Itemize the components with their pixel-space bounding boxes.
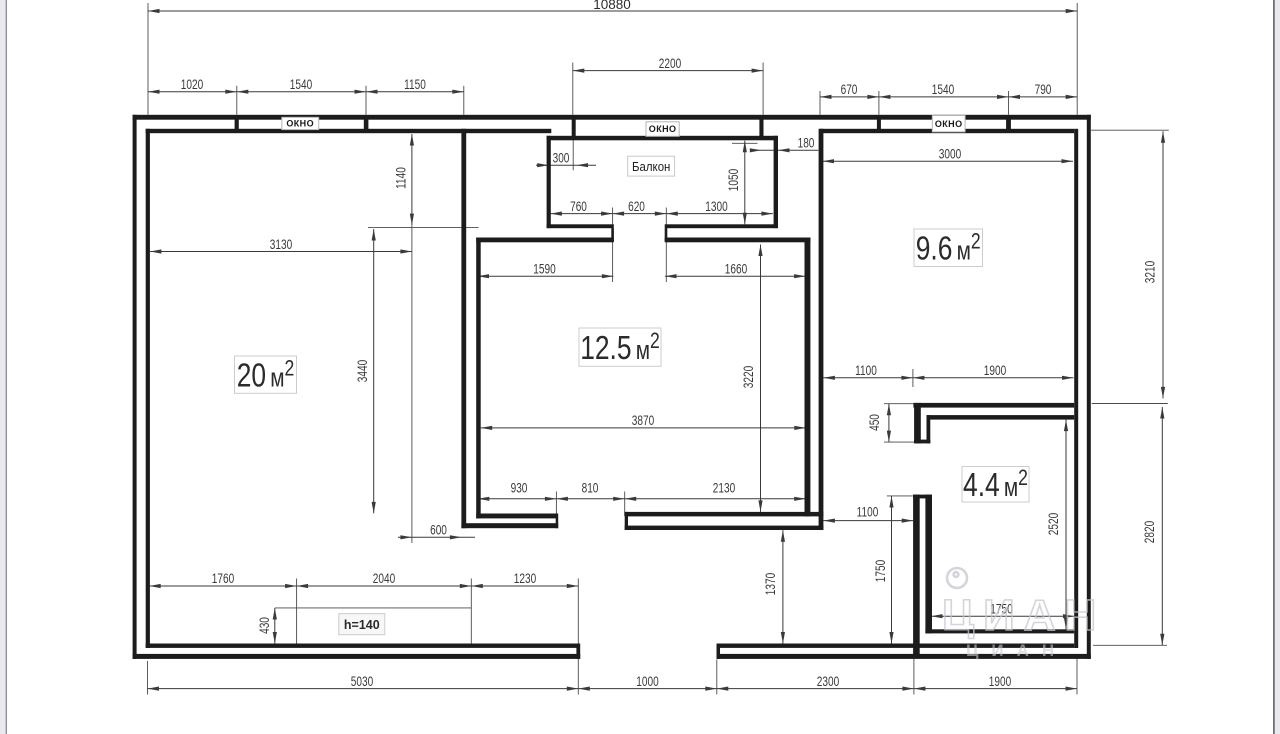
h=140 zone outline	[275, 607, 472, 609]
svg-text:450: 450	[866, 414, 882, 431]
dimension 2300 bottom	[717, 688, 914, 690]
dimension 2520 room 4.4 height	[1065, 420, 1067, 630]
dimension 1050 balcony depth	[744, 141, 746, 225]
dimension 300 balcony	[536, 164, 596, 166]
window jamb 2	[364, 119, 369, 130]
svg-text:Балкон: Балкон	[632, 159, 670, 174]
svg-text:1230: 1230	[514, 571, 537, 587]
wall end cap at entrance left	[576, 644, 580, 659]
dimension 790	[1009, 96, 1078, 98]
dimension 2040 h140 zone	[297, 585, 472, 587]
wall stub outer (450)	[914, 403, 921, 444]
outer wall left (outer line)	[133, 115, 137, 659]
partition room20 right wall vertical	[461, 129, 466, 528]
svg-text:1590: 1590	[533, 261, 556, 277]
hall left wall (long vertical)	[819, 129, 824, 530]
svg-text:600: 600	[430, 522, 447, 538]
svg-text:1020: 1020	[181, 76, 204, 92]
dimension 1540 window right	[879, 96, 1009, 98]
dimension 1370	[782, 530, 784, 643]
svg-text:2820: 2820	[1141, 521, 1157, 544]
svg-text:10880: 10880	[593, 0, 631, 12]
svg-text:790: 790	[1035, 82, 1052, 98]
outer wall bottom inner line left	[146, 644, 577, 648]
balcony door step left	[611, 228, 614, 241]
svg-text:3440: 3440	[354, 360, 370, 383]
hall lower horizontal wall	[625, 526, 824, 530]
room 4.4 lower-left wall outer	[913, 495, 920, 657]
room label 4.4 m2	[962, 467, 1029, 503]
dimension 1750 room 4.4 width	[931, 615, 1075, 617]
extension right side top (3210)	[1091, 129, 1169, 131]
dimension 620 balcony door	[613, 213, 667, 215]
watermark (faint)	[947, 568, 967, 588]
extension 450 dim	[884, 403, 915, 405]
outer wall right (inner line)	[1074, 129, 1078, 648]
left page margin strip	[0, 0, 6, 734]
svg-text:810: 810	[582, 480, 599, 496]
extension 1750 vert top	[887, 495, 913, 497]
svg-text:ЦИАН: ЦИАН	[966, 641, 1067, 660]
hall upper horizontal wall	[625, 512, 824, 517]
dimension 5030 bottom	[148, 688, 579, 690]
svg-text:430: 430	[256, 617, 272, 634]
partition room20 bottom horizontal	[461, 523, 558, 528]
room label 9.6 m2	[914, 229, 983, 267]
dimension 1750 hall height	[891, 496, 893, 644]
svg-text:ОКНО: ОКНО	[935, 119, 963, 129]
extension lines balcony door	[612, 208, 614, 283]
svg-text:3870: 3870	[632, 413, 655, 429]
extension 1140/3130/600 vertical at x=411.9	[411, 225, 413, 543]
window jamb 1	[235, 119, 239, 130]
svg-text:1540: 1540	[932, 82, 955, 98]
svg-text:1150: 1150	[404, 76, 426, 92]
svg-text:12.5 м2: 12.5 м2	[580, 329, 660, 367]
svg-text:1660: 1660	[725, 261, 748, 277]
extension right side middle	[1092, 403, 1168, 405]
room 4.4 bottom inner line	[925, 629, 1074, 633]
dimension 3130 room 20	[150, 251, 412, 253]
room label 12.5 m2	[579, 328, 661, 366]
window jamb 6	[1006, 119, 1011, 130]
wall stub inner	[927, 415, 931, 443]
dimension 2820 right bottom	[1161, 407, 1163, 645]
room 4.4 lower-left wall inner	[925, 495, 932, 634]
dimension 600	[398, 536, 475, 538]
svg-text:2040: 2040	[373, 571, 396, 587]
extension lines 930/810 row	[555, 492, 557, 517]
balcony door step right	[665, 228, 668, 241]
dimension 180	[750, 149, 818, 151]
dimension 930	[478, 498, 557, 500]
svg-text:1370: 1370	[763, 573, 779, 596]
svg-text:1000: 1000	[636, 673, 659, 689]
svg-text:3220: 3220	[740, 366, 756, 389]
dimension 430	[274, 608, 276, 644]
svg-text:180: 180	[798, 135, 815, 151]
dimension 810 door 12.5	[556, 498, 624, 500]
dimension 1540 window	[237, 91, 366, 93]
room 4.4 inner top line	[927, 415, 1075, 420]
room 12.5 right wall	[805, 238, 811, 517]
svg-text:1050: 1050	[725, 169, 741, 192]
window jamb 3 (balcony left)	[572, 119, 576, 137]
dimension 760 balcony	[550, 213, 612, 215]
dimension 670	[820, 96, 879, 98]
room 12.5 top wall right segment	[665, 238, 811, 243]
dimension 1140 vertical	[411, 134, 413, 225]
dimension 1100 hall	[823, 520, 913, 522]
dimension 2130	[625, 498, 806, 500]
outer wall top (outer line)	[133, 115, 1091, 120]
dimension 3440 room 20 height	[373, 229, 375, 513]
svg-text:1900: 1900	[989, 673, 1012, 689]
svg-text:ОКНО: ОКНО	[286, 119, 314, 129]
svg-text:1760: 1760	[212, 571, 235, 587]
svg-text:3000: 3000	[939, 146, 962, 162]
dimension 1300 balcony	[666, 213, 773, 215]
outer wall bottom inner line right	[717, 644, 1075, 648]
dimension 2200 balcony window	[573, 70, 763, 72]
balcony left wall	[547, 136, 551, 228]
svg-text:2520: 2520	[1045, 513, 1061, 536]
h=140 label	[339, 614, 385, 635]
extension right side bottom (2820)	[1093, 644, 1167, 646]
balcony right wall	[774, 136, 778, 228]
dimension 1020	[148, 91, 237, 93]
balcony label	[628, 156, 675, 176]
dimension 3870 room 12.5	[481, 427, 806, 429]
window label OKNO right	[932, 116, 965, 132]
room 12.5 top wall left segment	[476, 238, 614, 243]
hall wall left end cap	[625, 512, 628, 530]
dimension 1760	[149, 585, 296, 587]
room 9.6 top wall	[820, 129, 1074, 133]
svg-text:5030: 5030	[351, 673, 374, 689]
wall stub end cap	[914, 440, 930, 444]
dimension 1230	[471, 585, 578, 587]
dimension 1590	[478, 275, 614, 277]
extension tick 1050 top	[732, 142, 758, 144]
dimension 10880 overall width	[148, 10, 1077, 12]
dimension 3210 right top	[1162, 131, 1164, 398]
extension lines bottom row	[147, 661, 149, 695]
svg-text:1300: 1300	[705, 199, 728, 215]
svg-text:760: 760	[570, 199, 587, 215]
svg-text:1750: 1750	[872, 560, 888, 583]
outer wall bottom outer line left	[133, 654, 581, 659]
room label 20 m2	[235, 356, 297, 393]
room 12.5 left wall vertical	[476, 238, 481, 519]
balcony bottom wall right segment	[665, 224, 778, 228]
hall top wall (to room 4.4)	[913, 403, 1074, 408]
dimension 1900 bottom right	[914, 688, 1077, 690]
svg-text:2200: 2200	[659, 55, 682, 71]
svg-text:1540: 1540	[290, 76, 313, 92]
svg-text:1100: 1100	[857, 504, 879, 520]
svg-text:1100: 1100	[855, 362, 877, 378]
room 4.4 lower-left wall top cap	[913, 495, 932, 499]
right page margin strip	[1275, 0, 1280, 734]
svg-text:1900: 1900	[984, 362, 1007, 378]
svg-text:930: 930	[511, 480, 528, 496]
room 12.5 bottom-left horizontal	[476, 514, 557, 519]
partition end cap	[556, 514, 559, 529]
outer wall bottom outer line right	[717, 654, 1091, 659]
balcony top wall	[547, 136, 778, 141]
dimension 1900 top	[913, 377, 1074, 379]
dimension 1000 entrance	[578, 688, 717, 690]
svg-text:620: 620	[628, 199, 645, 215]
dimension 450	[888, 404, 890, 442]
svg-text:ЦИАН: ЦИАН	[942, 591, 1105, 640]
window jamb 5	[877, 119, 881, 130]
wall end cap at entrance right	[717, 644, 721, 659]
window label OKNO middle	[646, 122, 679, 137]
svg-text:300: 300	[553, 150, 570, 166]
dimension 1150	[366, 91, 464, 93]
dimension 1660	[665, 275, 806, 277]
svg-text:3130: 3130	[270, 236, 293, 252]
svg-text:ОКНО: ОКНО	[649, 124, 677, 134]
extension horizontal at y=227.4 (balcony floor level)	[368, 226, 479, 228]
svg-text:h=140: h=140	[344, 618, 380, 632]
svg-text:2130: 2130	[713, 480, 736, 496]
svg-text:1140: 1140	[393, 167, 409, 189]
balcony bottom wall left segment	[547, 224, 614, 228]
extension line balcony window 300	[572, 139, 574, 170]
dimension 1100 door 9.6	[823, 377, 913, 379]
svg-text:670: 670	[841, 82, 858, 98]
svg-text:2300: 2300	[817, 673, 840, 689]
dimension 3220 room 12.5 height	[760, 245, 762, 512]
outer wall left (inner line)	[146, 129, 150, 648]
dimension 3000 room 9.6 width	[823, 160, 1074, 162]
outer wall right (outer line)	[1087, 115, 1091, 659]
window label OKNO left	[282, 117, 319, 129]
svg-text:3210: 3210	[1142, 261, 1158, 284]
extension lines top	[147, 3, 149, 115]
outer wall top inner line left section	[146, 129, 552, 133]
extension 1100/1900 top row at x=912.9	[912, 369, 914, 387]
window jamb 4 (balcony right)	[759, 119, 763, 137]
